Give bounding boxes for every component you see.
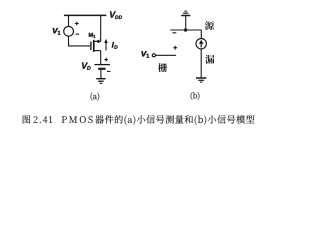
label v1	[53, 28, 61, 35]
label: gate (Chinese)	[158, 63, 167, 72]
polarity + (gate side)	[173, 46, 177, 50]
polarity - of V1	[76, 33, 80, 35]
label M1	[89, 33, 96, 38]
wire: current source to bottom ground	[200, 49, 202, 78]
label VD	[82, 63, 91, 70]
label v1 (circuit b)	[141, 51, 149, 58]
wire: source node stub (left) and to current source (right)	[170, 30, 201, 39]
label (b)	[191, 92, 200, 100]
polarity + of VD	[104, 58, 108, 62]
label ID	[112, 42, 118, 49]
transistor M1 channel bar	[93, 40, 95, 52]
node: source (junction dot)	[184, 28, 187, 31]
wire: battery to ground	[100, 70, 102, 79]
gate terminal (open circle)	[152, 54, 155, 57]
battery VD negative plate	[98, 68, 105, 70]
polarity + of V1	[75, 22, 79, 26]
ground (bottom of circuit b)	[196, 78, 206, 82]
label (a)	[91, 93, 100, 101]
transistor M1 drain stub	[95, 50, 101, 52]
battery VD positive plate	[94, 64, 110, 66]
wire: rail to V1 top	[68, 15, 70, 26]
wire: M1 drain to battery VD	[100, 51, 102, 65]
transistor M1 (PMOS) gate bar	[90, 42, 91, 51]
label: source (Chinese)	[205, 21, 214, 30]
polarity - of VD	[107, 70, 110, 72]
current arrow ID	[104, 39, 108, 51]
wire: gate stub	[156, 54, 177, 56]
voltage source V1	[64, 26, 74, 36]
ground (circuit a)	[96, 79, 105, 84]
figure caption	[23, 115, 255, 125]
transistor M1 source stub with PMOS arrow	[95, 40, 101, 44]
dependent current source gm*v1	[196, 39, 206, 49]
label VDD	[110, 11, 122, 18]
wire: V1 bottom to gate of M1	[69, 36, 91, 46]
wire: VDD supply rail	[64, 14, 107, 16]
wire: M1 source to VDD rail	[100, 15, 102, 42]
label: drain (Chinese)	[205, 55, 214, 64]
wire: top ground to source node	[185, 16, 187, 30]
ground (top of circuit b, inverted)	[181, 11, 190, 15]
polarity - (source side)	[172, 32, 176, 34]
